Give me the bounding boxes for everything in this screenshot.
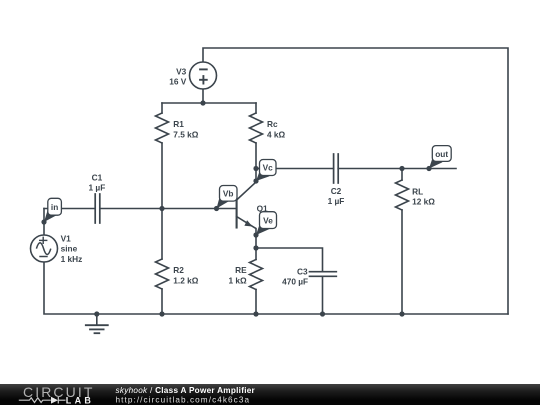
svg-text:470 µF: 470 µF [282,276,308,286]
svg-text:http://circuitlab.com/c4k6c3a: http://circuitlab.com/c4k6c3a [116,395,251,404]
svg-text:1 µF: 1 µF [328,196,345,206]
svg-text:1.2 kΩ: 1.2 kΩ [173,275,198,285]
svg-text:skyhook / Class A Power Amplif: skyhook / Class A Power Amplifier [116,386,256,395]
svg-text:R1: R1 [173,119,184,129]
svg-text:R2: R2 [173,265,184,275]
svg-text:V3: V3 [176,67,187,77]
svg-text:12 kΩ: 12 kΩ [412,197,435,207]
svg-text:out: out [435,149,448,159]
svg-text:1 kΩ: 1 kΩ [229,275,248,285]
svg-text:sine: sine [61,244,78,254]
svg-text:1 µF: 1 µF [89,182,106,192]
svg-text:Vc: Vc [263,163,274,173]
svg-text:C2: C2 [331,186,342,196]
svg-text:Ve: Ve [263,215,273,225]
svg-text:7.5 kΩ: 7.5 kΩ [173,129,198,139]
svg-text:Vb: Vb [223,189,234,199]
svg-text:Rc: Rc [267,119,278,129]
svg-text:RE: RE [235,265,247,275]
svg-text:4 kΩ: 4 kΩ [267,129,286,139]
svg-text:LAB: LAB [66,395,94,405]
svg-text:16 V: 16 V [169,77,187,87]
svg-text:1 kHz: 1 kHz [61,254,83,264]
svg-text:V1: V1 [61,234,72,244]
svg-text:in: in [51,202,58,212]
svg-text:C3: C3 [297,267,308,277]
svg-text:C1: C1 [92,172,103,182]
svg-text:RL: RL [412,186,423,196]
